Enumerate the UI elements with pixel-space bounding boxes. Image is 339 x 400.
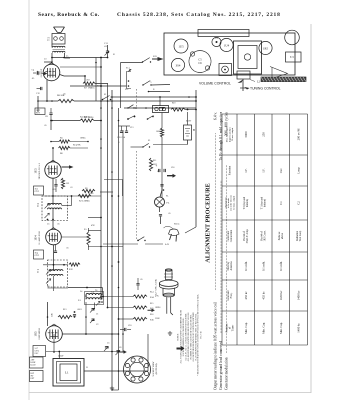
capacitor C8: [49, 113, 52, 114]
speaker: [54, 27, 65, 33]
svg-text:1U4: 1U4: [34, 235, 38, 241]
boxed note det: [34, 186, 44, 195]
svg-text:Min. Cap.: Min. Cap.: [244, 322, 248, 334]
svg-text:R12: R12: [69, 269, 73, 271]
switch S1B: [142, 84, 143, 85]
tube V2 1U5 det: [45, 162, 61, 178]
svg-text:1400 kc: 1400 kc: [297, 290, 301, 300]
boxed note conv: [33, 346, 46, 357]
svg-text:R14: R14: [150, 292, 153, 294]
wire speaker to tube: [51, 44, 53, 48]
chassis tube 1U5: [174, 39, 188, 53]
wire y62 to switch: [121, 62, 143, 64]
svg-text:VOLUME CONTROL: VOLUME CONTROL: [199, 82, 231, 86]
svg-text:Output meter reading to indica: Output meter reading to indicate 0.05 wa…: [214, 302, 218, 390]
svg-text:OSC: OSC: [35, 353, 40, 355]
svg-text:* MEASURED WITH BATTERY SUPPLY: * MEASURED WITH BATTERY SUPPLY AT RATED …: [197, 294, 200, 376]
svg-text:C15: C15: [157, 171, 160, 173]
marks below tube left: [41, 87, 42, 90]
svg-text:Antenna: Antenna: [230, 261, 233, 271]
svg-text:CONVERTER: CONVERTER: [39, 327, 41, 340]
svg-text:+: +: [156, 164, 158, 168]
svg-text:to be made: to be made: [228, 198, 230, 208]
svg-text:I.F. AMPLIFIER: I.F. AMPLIFIER: [38, 231, 41, 245]
capacitor C9: [54, 185, 57, 186]
svg-text:Connection: Connection: [230, 229, 233, 242]
resistor R6: [59, 146, 71, 149]
trimmer capacitor C11: [106, 51, 109, 52]
wire osc top: [48, 287, 69, 289]
capacitor C18: [125, 328, 126, 331]
svg-text:.1: .1: [118, 142, 120, 144]
arrow pointing to L2 coil: [148, 309, 155, 313]
bus wire B: [107, 84, 109, 308]
loop wires: [84, 370, 148, 372]
capacitor C17: [159, 215, 162, 216]
svg-text:47K: 47K: [155, 296, 159, 298]
T1 tuning arrows: [46, 270, 51, 275]
IF transformer T2 dashed box: [42, 196, 68, 221]
svg-text:S1A: S1A: [126, 67, 130, 70]
svg-text:C3: C3: [44, 59, 46, 61]
wire bottom bus: [112, 389, 119, 391]
svg-text:1R5: 1R5: [263, 47, 269, 51]
svg-text:To B- through 0.1 mfd. capacit: To B- through 0.1 mfd. capacitor: [219, 111, 223, 160]
svg-text:.05: .05: [66, 248, 69, 250]
socket pin 5: [125, 363, 129, 367]
svg-text:S3: S3: [148, 140, 150, 142]
IF transformer T-1 top view: [219, 64, 232, 76]
svg-text:R6 470K: R6 470K: [73, 145, 81, 147]
capacitor C20: [160, 185, 163, 186]
svg-text:LOOP: LOOP: [58, 356, 64, 358]
socket pin 6: [131, 358, 135, 362]
svg-text:Min. Cap.: Min. Cap.: [279, 322, 283, 334]
wire det plate row: [44, 195, 101, 197]
socket pin 2: [139, 377, 143, 381]
chassis tube 1U4: [220, 38, 233, 51]
svg-text:3S4 I.F. Amp.: 3S4 I.F. Amp.: [246, 228, 249, 243]
svg-text:bottom): bottom): [246, 199, 249, 207]
dial cord hatched bar: [261, 77, 306, 82]
svg-text:50 mw. output: 50 mw. output: [232, 128, 234, 142]
wire bus to loop top: [58, 352, 60, 359]
tube V3 1U4 IF amp: [46, 229, 62, 245]
svg-text:Generator modulation: Generator modulation: [225, 357, 229, 390]
svg-text:above: above: [281, 232, 284, 239]
svg-text:Input to produce: Input to produce: [229, 127, 231, 142]
capacitor C19 bottom: [136, 284, 139, 285]
svg-text:Max. Microvolts: Max. Microvolts: [227, 127, 229, 143]
wire T1 top row: [43, 264, 68, 266]
svg-text:.0001: .0001: [77, 309, 82, 311]
svg-text:C2: C2: [297, 201, 301, 205]
volume control resistor R3: [61, 178, 64, 189]
svg-text:.002: .002: [86, 80, 90, 82]
wire row y101 to bus: [195, 100, 197, 102]
svg-text:R7: R7: [97, 86, 99, 88]
loop antenna L1 inner: [60, 364, 77, 381]
svg-text:C9: C9: [61, 180, 63, 182]
page right edge line: [310, 24, 312, 393]
svg-text:S1C: S1C: [125, 89, 129, 91]
wire battery bottom: [187, 140, 189, 145]
socket pin 3: [131, 377, 135, 381]
cathode resistor R8: [58, 99, 74, 102]
svg-text:T4: T4: [95, 290, 97, 292]
svg-text:for max. output: for max. output: [232, 196, 235, 211]
svg-text:.01: .01: [70, 187, 73, 189]
svg-text:GT/G: GT/G: [35, 255, 40, 257]
switch S2B contacts: [127, 118, 129, 120]
socket pin 1: [144, 371, 148, 375]
svg-text:T 2: T 2: [37, 203, 40, 207]
wire above det tube: [52, 148, 54, 162]
svg-text:LEAD: LEAD: [31, 364, 37, 367]
svg-text:bottom): bottom): [264, 199, 267, 207]
svg-text:.05: .05: [44, 125, 47, 127]
wire y101 left stub: [38, 100, 47, 102]
socket pin 8: [144, 364, 148, 368]
loop antenna circle top right: [285, 30, 300, 45]
IF transformer T-2 top view: [212, 37, 221, 46]
svg-text:1U5: 1U5: [178, 45, 184, 49]
avc bus wire: [46, 351, 120, 353]
svg-text:T-2: T-2: [215, 38, 218, 40]
oscillator transformer L3 winding 1: [86, 293, 102, 295]
IF transformer T1 dashed box: [48, 260, 68, 287]
arrow right at electrolytics: [167, 174, 176, 178]
wire y97: [111, 96, 197, 98]
svg-text:C16: C16: [171, 167, 174, 169]
svg-text:C1: C1: [279, 201, 283, 205]
svg-text:220K: 220K: [155, 318, 160, 320]
bus wire F: [95, 58, 97, 102]
svg-text:S4: S4: [137, 240, 139, 242]
svg-text:Sears, Roebuck & Co.: Sears, Roebuck & Co.: [38, 12, 100, 18]
chassis panel outline: [164, 33, 295, 75]
switch S4: [137, 240, 138, 241]
IF plate choke vertical: [87, 232, 90, 245]
wire top row y58: [52, 57, 108, 59]
wire jack box to y97 line: [159, 97, 161, 106]
svg-text:2MEG: 2MEG: [88, 193, 94, 195]
svg-text:3MEG: 3MEG: [88, 117, 94, 119]
switch S1A: [142, 61, 143, 62]
tube V1 3S4 output: [43, 64, 60, 81]
svg-text:1000: 1000: [156, 131, 160, 133]
resistor R12: [69, 263, 80, 266]
tuning pointer: [270, 67, 288, 80]
svg-text:0.1 mfd.: 0.1 mfd.: [261, 261, 265, 271]
svg-text:1MEG: 1MEG: [88, 87, 95, 90]
svg-text:R11: R11: [153, 160, 156, 162]
table grid: [222, 114, 308, 345]
wire loop mid: [104, 179, 123, 181]
resistor R14: [133, 295, 147, 298]
T2 wires: [52, 178, 54, 205]
page left edge line: [28, 0, 30, 400]
svg-text:6.4V: 6.4V: [165, 244, 170, 246]
gang cap C1 arrow: [104, 346, 109, 351]
svg-text:Function: Function: [228, 165, 231, 175]
svg-text:L4: L4: [92, 292, 94, 294]
T1 primary winding: [49, 270, 63, 271]
svg-text:200 uv/M: 200 uv/M: [297, 128, 301, 140]
resistor R4: [80, 119, 94, 122]
svg-text:I.F.: I.F.: [261, 168, 265, 172]
svg-text:1R5 Conv.: 1R5 Conv.: [264, 230, 267, 241]
svg-text:T 5: T 5: [48, 37, 51, 41]
svg-text:3S4: 3S4: [176, 64, 181, 68]
boxed note switch detail: [30, 371, 44, 382]
svg-text:S2: S2: [104, 94, 106, 96]
svg-text:C5: C5: [107, 343, 109, 345]
battery B: [184, 125, 192, 140]
svg-text:Chassis 528.238, Sets Catalog: Chassis 528.238, Sets Catalog Nos. 2215,…: [117, 12, 281, 18]
wire avc node: [51, 120, 80, 122]
output transformer T5 box: [52, 34, 65, 45]
svg-text:2ND DET AVC A.F.: 2ND DET AVC A.F.: [38, 162, 41, 179]
T-3 box: [286, 52, 302, 62]
socket pin 7: [139, 358, 143, 362]
svg-text:1U5: 1U5: [34, 168, 38, 174]
bus wire A: [100, 58, 102, 301]
switch S1B lower contact wire: [148, 91, 150, 93]
chassis tube 1R5: [259, 41, 272, 54]
boxed note lower left top section: [35, 108, 45, 115]
switch S3: [142, 146, 143, 147]
grid resistor R1: [84, 76, 86, 83]
svg-text:R4: R4: [84, 117, 86, 119]
osc padder arrow: [90, 319, 94, 323]
bus wire C: [111, 90, 113, 390]
capacitor C4: [73, 315, 76, 316]
svg-text:R10: R10: [172, 103, 175, 105]
gang capacitor C5 C6: [189, 51, 211, 73]
svg-text:Min. Cap.: Min. Cap.: [261, 322, 265, 334]
svg-text:Freq.: Freq.: [230, 292, 233, 298]
svg-text:.05: .05: [140, 279, 143, 281]
svg-text:1MEG: 1MEG: [155, 307, 161, 309]
T2 secondary winding: [48, 208, 62, 209]
svg-text:455 kc: 455 kc: [244, 291, 248, 300]
svg-text:C12: C12: [36, 93, 40, 95]
capacitor C7: [54, 251, 57, 252]
svg-text:R16: R16: [150, 314, 153, 316]
wire row y86: [70, 85, 127, 87]
svg-text:OUTPUT: OUTPUT: [41, 68, 43, 77]
svg-text:Test Loop: Test Loop: [299, 230, 302, 241]
T1 wires: [53, 245, 55, 271]
dial scale strip: [198, 30, 249, 37]
switch S5 on y97 row: [102, 99, 104, 101]
oscillator transformer L3 winding 2: [86, 298, 102, 300]
resistor R11 vertical: [149, 158, 152, 171]
wafer switch wiper bracket: [127, 69, 132, 88]
svg-text:T 1: T 1: [37, 269, 40, 273]
svg-text:C2: C2: [96, 324, 98, 326]
wire y62 horizontal: [44, 61, 52, 63]
svg-text:L4: L4: [80, 291, 82, 293]
svg-text:Generator ground lead connecte: Generator ground lead connected: [219, 341, 223, 390]
wire right bus vertical x196: [195, 90, 197, 227]
switch section dashed link: [136, 89, 138, 108]
svg-text:.05: .05: [57, 224, 60, 226]
gang cap C2 arrow: [116, 350, 121, 355]
electrolytic capacitors C15 C16: [159, 169, 160, 172]
bus wire D: [118, 108, 120, 390]
svg-text:S1: S1: [113, 54, 115, 56]
ground near plug: [168, 331, 172, 335]
wire bottom-left vertical: [37, 96, 39, 112]
svg-text:C6: C6: [47, 286, 49, 288]
svg-text:T5: T5: [66, 56, 68, 58]
svg-text:0.1 mfd.: 0.1 mfd.: [279, 261, 283, 271]
volume control pot: [237, 71, 250, 79]
arrow from detector: [62, 165, 74, 169]
svg-text:(in order shown): (in order shown): [230, 195, 233, 211]
svg-text:R15: R15: [150, 303, 153, 305]
row y108 wire: [124, 107, 196, 109]
chassis tube 3S4: [171, 58, 184, 71]
resistor R2 agc: [78, 194, 91, 197]
svg-text:SOCKET VIEW: SOCKET VIEW: [153, 361, 155, 377]
T2 primary winding: [48, 203, 62, 204]
grid capacitor C12 with arrow at tube left: [38, 71, 39, 74]
svg-text:R13: R13: [63, 309, 66, 311]
svg-text:S1B: S1B: [153, 56, 157, 58]
osc trimmer C3 arrow: [90, 308, 94, 312]
resistor R15: [133, 306, 147, 309]
svg-text:C18: C18: [128, 325, 131, 327]
loop antenna L1 outer: [53, 359, 84, 387]
wire y67 horizontal: [60, 66, 101, 68]
wires 1R5: [47, 302, 49, 326]
switch S2A row: [127, 107, 128, 108]
socket pin 4: [125, 371, 129, 375]
svg-text:C6: C6: [119, 347, 121, 349]
grid resistor R13: [58, 315, 72, 318]
svg-text:C5: C5: [47, 224, 49, 226]
boxed note if: [34, 250, 44, 259]
switch S6 below jack: [147, 118, 149, 120]
svg-text:I.F.: I.F.: [244, 168, 248, 172]
bus wire E: [122, 130, 124, 352]
svg-text:1MEG: 1MEG: [80, 138, 86, 140]
svg-text:0.1 mfd.: 0.1 mfd.: [244, 261, 248, 271]
oscillator coil L2 pictorial: [159, 269, 178, 315]
svg-text:1400 kc: 1400 kc: [297, 323, 301, 333]
resistor R16: [133, 317, 147, 320]
boxed note battery cable: [30, 357, 44, 368]
page bottom edge line: [29, 392, 311, 394]
resistor R10 row: [171, 108, 185, 111]
svg-text:C1: C1: [96, 314, 98, 316]
ground bottom: [110, 386, 114, 390]
table headers: [224, 127, 235, 333]
output transformer T5 windings: [53, 46, 66, 47]
svg-text:R2 2.2MEG: R2 2.2MEG: [79, 201, 90, 203]
svg-text:.05: .05: [63, 94, 66, 96]
capacitor C13 C14 pair: [120, 131, 123, 132]
svg-text:C13: C13: [130, 127, 133, 129]
svg-text:FIG. 7-40: FIG. 7-40: [201, 331, 203, 339]
dashed link S3: [136, 151, 138, 240]
junction dots sprinkle: [100, 100, 102, 102]
wire jack down: [161, 113, 163, 129]
svg-text:ALIGNMENT PROCEDURE: ALIGNMENT PROCEDURE: [205, 183, 212, 262]
svg-text:.05: .05: [168, 213, 171, 215]
svg-text:R9: R9: [85, 188, 87, 190]
resistor RA vertical: [160, 128, 163, 137]
svg-text:6.4 v.: 6.4 v.: [214, 112, 218, 120]
speaker top view square: [234, 41, 262, 74]
svg-text:455 kc: 455 kc: [261, 291, 265, 300]
svg-text:BATT: BATT: [186, 120, 192, 123]
svg-text:PLUG: PLUG: [174, 224, 180, 226]
tube V4 1R5 converter: [46, 326, 63, 343]
svg-text:1U4: 1U4: [224, 44, 230, 48]
power plug: [169, 229, 180, 236]
svg-text:B: B: [193, 129, 195, 132]
svg-text:5000: 5000: [244, 131, 248, 138]
svg-text:L1: L1: [65, 371, 69, 375]
resistor R9: [82, 189, 95, 192]
svg-text:.005: .005: [52, 189, 56, 191]
svg-text:1630 kc: 1630 kc: [279, 290, 283, 300]
resistor R5: [59, 140, 70, 143]
tube socket view: [124, 356, 151, 383]
notes arrow: [177, 346, 185, 351]
wire plate to bus: [60, 75, 64, 77]
svg-text:Adjustments: Adjustments: [224, 197, 227, 209]
svg-text:GT/G: GT/G: [35, 191, 40, 193]
junction dots on buses: [100, 120, 102, 122]
svg-text:1R5: 1R5: [34, 331, 38, 337]
svg-text:TUNING CONTROL: TUNING CONTROL: [250, 87, 281, 91]
pilot lamp: [155, 197, 165, 207]
T1 secondary winding: [49, 274, 63, 275]
svg-text:L2 - OSC. COIL: L2 - OSC. COIL: [155, 278, 158, 295]
alignment procedure block: [205, 111, 308, 390]
svg-text:250: 250: [261, 132, 265, 137]
wire bus to plug: [185, 227, 196, 233]
svg-text:L1: L1: [86, 367, 88, 369]
svg-text:22K: 22K: [52, 313, 54, 317]
cathode wire: [46, 80, 48, 101]
svg-text:Osc.: Osc.: [279, 168, 283, 174]
svg-text:47K: 47K: [91, 225, 95, 227]
osc transformer top wire: [68, 287, 102, 289]
svg-text:Tuner: Tuner: [232, 325, 235, 331]
T2 tuning arrows: [45, 204, 50, 209]
jack box with contacts: [153, 106, 169, 113]
svg-text:Loop: Loop: [297, 167, 301, 174]
svg-text:NOTES:: NOTES:: [178, 333, 180, 341]
svg-text:(BOTTOM): (BOTTOM): [155, 363, 158, 374]
